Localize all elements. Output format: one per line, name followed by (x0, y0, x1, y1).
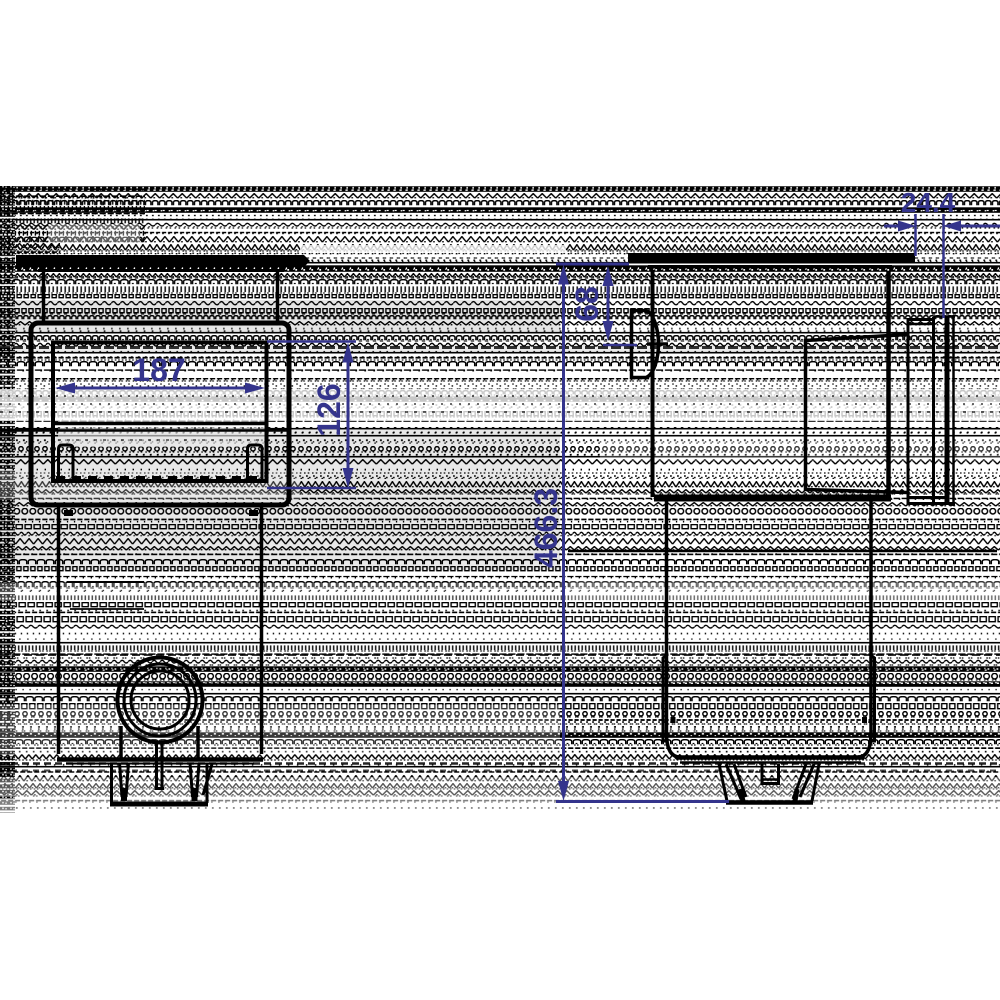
drain circle middle (124, 664, 196, 736)
left tank bottom second line (66, 763, 254, 765)
right tank left clip (663, 654, 668, 741)
left tank shelf line 1 (67, 581, 144, 583)
dim 68 line (607, 283, 610, 326)
left tank wall top hook left (64, 510, 73, 516)
drain circle outer (118, 658, 203, 743)
right body right edge (886, 271, 891, 497)
noise dashed row 763 (0, 762, 1000, 765)
right body bottom bar (654, 495, 891, 502)
svg-text:187: 187 (132, 352, 185, 388)
left view bottom dashes (56, 476, 264, 479)
right body left edge (651, 271, 655, 497)
dim 126 top arrowhead (343, 343, 354, 363)
noise patch: light band right lower (570, 578, 1000, 600)
right view lid bar (628, 253, 915, 264)
noise patch: light strip 777 (0, 777, 1000, 797)
dim 24.4 left line (884, 225, 911, 228)
flange thick wall (945, 318, 950, 505)
noise white gap band mid-top (300, 245, 566, 253)
dim 68 bottom arrowhead (603, 321, 614, 341)
right foot left leg line 2 (734, 764, 746, 797)
right foot left leg line 1 (726, 764, 741, 799)
left foot left leg line 1 (120, 763, 123, 797)
right tank right clip (870, 654, 875, 741)
left view right tab (248, 445, 263, 480)
left view neck right wall (276, 272, 280, 323)
dim 24.4 right arrowhead (943, 221, 961, 232)
flange top second line (907, 323, 935, 326)
right foot right leg tip (795, 789, 797, 801)
left view lid underplate (38, 269, 284, 272)
noise dark mid-left zone (0, 430, 560, 570)
left foot left leg tip (121, 788, 127, 801)
right foot outer left edge (719, 764, 727, 801)
noise dashed row 655 (0, 654, 1000, 656)
dim 24.4 right extension line (942, 214, 945, 318)
long thin line left half (0, 429, 290, 432)
dim 68 top arrowhead (603, 266, 614, 286)
dim 187 left arrowhead (55, 383, 75, 394)
left tank shelf line 2 (70, 608, 144, 610)
left view body outline (31, 323, 289, 505)
svg-text:24.4: 24.4 (901, 187, 956, 218)
noise patch: light left lower (0, 705, 560, 755)
long thin line right half (568, 550, 997, 553)
throat top edge (806, 335, 908, 341)
noise patch: bottom fade (0, 798, 1000, 813)
dim 187 right arrowhead (245, 383, 265, 394)
left foot box left wall (110, 763, 113, 803)
left foot right leg line 2 (197, 763, 200, 797)
noise dark top edge row (0, 186, 1000, 191)
left view lid bar (16, 255, 304, 267)
dim 24.4 left arrowhead (898, 221, 916, 232)
right tank bottom second line (680, 761, 861, 764)
left view inner opening (53, 343, 267, 482)
dim 466.3 bottom arrowhead (558, 781, 569, 801)
left view lid tip (304, 255, 310, 267)
dim 126 bottom extension line (267, 487, 356, 490)
dim 126 line (347, 360, 350, 470)
right tank left wall (667, 501, 681, 757)
right foot outer right edge (812, 764, 819, 801)
dim 466.3 top extension line (556, 263, 629, 266)
noise patch: dark left 300-332 (0, 300, 560, 332)
right foot center square inner line (762, 778, 779, 781)
right foot center square (762, 764, 779, 784)
right tank right clip notch (862, 717, 867, 723)
svg-text:466.3: 466.3 (528, 488, 564, 568)
dim 126 bottom arrowhead (343, 468, 354, 488)
right foot left leg tip (740, 789, 743, 801)
left foot bottom bar (110, 802, 208, 807)
right foot right leg line 2 (800, 764, 814, 797)
noise patch: light band top-left (48, 224, 140, 243)
dim 466.3 bottom extension line (556, 800, 729, 803)
dim 466.3 top arrowhead (558, 265, 569, 285)
noise patch: light band inside right body (600, 437, 1000, 461)
noise patch: light left mid (0, 470, 300, 500)
noise band rows (0, 186, 1000, 813)
right tank left clip notch (671, 717, 676, 723)
left view weir line (53, 422, 267, 426)
flange bottom edge (907, 496, 949, 499)
left tank left wall (57, 505, 61, 754)
left foot left leg line 2 (126, 763, 129, 797)
throat bottom edge (806, 490, 908, 493)
right foot bottom bar (726, 800, 813, 805)
noise thin line 684 (0, 683, 620, 685)
noise dark zone top-left (0, 187, 145, 255)
dim 68 bottom extension line (603, 344, 637, 347)
left foot right leg line 1 (190, 763, 193, 797)
flange right wall (952, 315, 955, 506)
dim 24.4 right line (948, 225, 1000, 228)
throat left edge (804, 339, 808, 491)
left view neck left wall (42, 272, 46, 323)
left tank right wall (260, 505, 264, 754)
noise patch: light strip 583 (0, 583, 1000, 601)
flange top cap (934, 315, 955, 318)
svg-text:68: 68 (569, 286, 605, 322)
left pipe holder right line (196, 726, 200, 760)
dim 466.3 line (562, 282, 565, 785)
flange inner wall (932, 317, 935, 503)
noise patch: light band under weir (58, 421, 265, 447)
right view lid underplate (648, 265, 892, 269)
flange bottom second line (907, 502, 956, 505)
noise patch: light band right middle (0, 389, 1000, 421)
left tank bottom (57, 757, 263, 762)
right tank right wall (858, 501, 871, 757)
latch tick (647, 342, 668, 346)
left foot stem right (161, 741, 164, 788)
drain circle inner (131, 671, 189, 729)
left foot stem cap (155, 787, 165, 790)
noise dark row 348 (0, 344, 1000, 352)
left foot stem left (155, 741, 158, 788)
left tank wall top hook right (249, 510, 258, 516)
left foot right leg tip (192, 788, 198, 801)
left foot diagonal (203, 764, 212, 795)
left pipe holder left line (119, 726, 123, 760)
noise dashed row 770 (0, 770, 1000, 772)
latch (632, 311, 659, 378)
flange left wall (907, 318, 910, 503)
dim 24.4 left extension line (914, 214, 917, 256)
noise dark left column (0, 186, 15, 813)
dim 126 top extension line (267, 340, 356, 343)
flange top edge (907, 318, 935, 321)
svg-text:126: 126 (311, 383, 347, 436)
right foot right leg line 1 (793, 764, 806, 799)
left foot box right wall (206, 763, 209, 803)
right tank bottom (676, 755, 864, 760)
dim 187 line (74, 387, 246, 390)
left view left tab (59, 445, 74, 480)
